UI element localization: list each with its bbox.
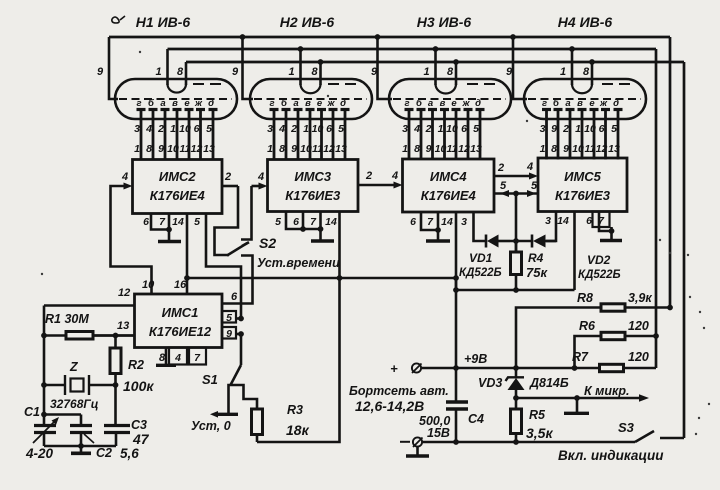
svg-text:С1: С1	[24, 405, 40, 419]
svg-text:9: 9	[551, 123, 557, 135]
tube Н1 grid dashed line	[119, 98, 232, 100]
scan specks (decorative)	[689, 296, 691, 298]
svg-text:6: 6	[599, 123, 605, 135]
svg-text:10: 10	[179, 123, 191, 135]
svg-text:10: 10	[142, 279, 155, 291]
tube Н3 anode dashes	[467, 83, 499, 85]
svg-text:R3: R3	[287, 403, 303, 417]
switch S3 contact	[660, 437, 684, 440]
svg-text:1: 1	[170, 123, 176, 135]
svg-text:4: 4	[145, 123, 152, 135]
IC ИМС1 pin 8 stub and bar	[165, 348, 168, 365]
svg-text:ИМС1: ИМС1	[162, 305, 199, 320]
svg-text:2: 2	[425, 123, 432, 135]
wire +9V supply bus to pins 14 16	[187, 278, 575, 290]
svg-text:а: а	[293, 98, 298, 109]
svg-text:VD3: VD3	[478, 376, 502, 390]
svg-text:6: 6	[586, 215, 592, 227]
tube Н2 ИВ-6 envelope	[250, 79, 372, 119]
svg-text:1: 1	[438, 123, 444, 135]
svg-text:1: 1	[134, 143, 140, 155]
svg-text:6: 6	[231, 291, 238, 303]
svg-text:13: 13	[203, 143, 215, 155]
tube Н2 anode dashes	[328, 83, 360, 85]
IC ИМС1 pin 9 boxed stub	[222, 327, 236, 339]
svg-text:R4: R4	[528, 251, 544, 265]
node filament bus1 junctions	[298, 46, 304, 52]
IC ИМС4 К176ИЕ4 box	[403, 159, 495, 212]
svg-text:Уст.времени: Уст.времени	[257, 256, 340, 270]
svg-text:1: 1	[303, 123, 309, 135]
IC ИМС2 К176ИЕ4 box	[133, 160, 223, 214]
switch S2 fixed contact from ИМС3 pin 4	[241, 186, 252, 240]
svg-text:ж: ж	[599, 98, 608, 109]
svg-text:3,5к: 3,5к	[526, 425, 553, 441]
svg-text:3,9к: 3,9к	[628, 291, 652, 305]
svg-text:4: 4	[121, 171, 128, 183]
svg-text:КД522Б: КД522Б	[578, 269, 621, 281]
svg-text:г: г	[404, 98, 409, 109]
wire ИМС3 pin14 riser continues to R3 bottom	[257, 278, 340, 442]
svg-text:32768Гц: 32768Гц	[50, 397, 99, 411]
wire R2 bottom to C3	[114, 385, 117, 426]
tube Н3 grid dashed line	[393, 98, 506, 100]
svg-text:10: 10	[435, 143, 447, 155]
svg-text:5,6: 5,6	[120, 446, 139, 461]
svg-text:13: 13	[470, 143, 482, 155]
svg-text:Н1 ИВ-6: Н1 ИВ-6	[136, 14, 191, 30]
svg-text:К176ИЕ12: К176ИЕ12	[149, 324, 212, 339]
svg-text:S2: S2	[259, 235, 276, 251]
tube Н4 filament pin 1 wire and label	[571, 49, 574, 85]
svg-text:9: 9	[506, 66, 513, 78]
svg-text:6: 6	[143, 216, 149, 228]
chassis ground under minus terminal	[416, 447, 419, 455]
tube Н4 grid dashed line	[528, 98, 641, 100]
svg-text:4-20: 4-20	[25, 446, 54, 461]
wire right riser bus pin9 to R8	[669, 37, 672, 308]
resistor R8 3,9к	[516, 308, 601, 369]
IC ИМС2 pin 2 output stub	[222, 185, 238, 188]
svg-text:Д814Б: Д814Б	[529, 376, 569, 390]
resistor R5 3,5к	[515, 398, 518, 409]
tube Н3 filament pin 1 wire and label	[434, 49, 437, 85]
svg-text:г: г	[542, 98, 547, 109]
svg-text:С2: С2	[96, 446, 112, 460]
tube Н1 anode dashes	[193, 83, 225, 85]
IC ИМС2 pin 5 wire to ИМС1 pin 5	[206, 214, 241, 319]
svg-text:14: 14	[325, 216, 337, 228]
svg-text:VD2: VD2	[587, 253, 611, 267]
svg-text:12: 12	[191, 143, 203, 155]
IC ИМС2 pin 6 wire	[151, 214, 169, 230]
svg-text:13: 13	[117, 320, 129, 332]
wire ИМС4 pin 2 to ИМС5 pin 4	[494, 175, 533, 178]
svg-text:К176ИЕ3: К176ИЕ3	[285, 188, 341, 203]
svg-text:10: 10	[572, 143, 584, 155]
IC ИМС1 pin 5 boxed stub	[222, 311, 236, 323]
svg-text:1: 1	[402, 143, 408, 155]
ground bar ИМС4	[426, 239, 450, 243]
svg-text:4: 4	[257, 171, 264, 183]
svg-text:К176ИЕ4: К176ИЕ4	[150, 188, 206, 203]
tube Н2 filament pin 1 wire and label	[299, 49, 302, 85]
svg-text:Н3 ИВ-6: Н3 ИВ-6	[417, 14, 472, 30]
svg-text:в: в	[577, 98, 583, 109]
svg-text:5: 5	[194, 216, 200, 228]
tube Н3 filament pin 8 wire and label	[455, 62, 458, 85]
svg-text:д: д	[340, 98, 346, 109]
wire bottom of oscillator	[43, 433, 46, 447]
svg-text:18к: 18к	[286, 422, 310, 438]
diode VD1 КД522Б	[485, 235, 488, 248]
svg-text:VD1: VD1	[469, 251, 493, 265]
svg-text:10: 10	[446, 123, 458, 135]
tube Н2 grid dashed line	[254, 98, 367, 100]
svg-text:5: 5	[226, 312, 232, 324]
svg-text:К176ИЕ4: К176ИЕ4	[421, 188, 477, 203]
IC ИМС2 pin 7 wire to ground	[168, 214, 171, 241]
chassis ground under C2	[71, 451, 91, 455]
wire preset node down to R4	[515, 194, 518, 253]
IC ИМС4 pin 3 wire to VD1	[474, 212, 486, 241]
svg-text:г: г	[136, 98, 141, 109]
wire grid riser tube H1	[109, 37, 118, 99]
svg-text:3: 3	[545, 215, 551, 227]
tube Н4 ИВ-6 envelope	[524, 79, 646, 119]
svg-text:8: 8	[312, 66, 319, 78]
svg-text:Н4 ИВ-6: Н4 ИВ-6	[558, 14, 613, 30]
svg-text:2: 2	[157, 123, 164, 135]
svg-text:е: е	[589, 98, 595, 109]
tube Н3 ИВ-6 envelope	[389, 79, 511, 119]
svg-text:2: 2	[497, 162, 504, 174]
wire minus bus	[422, 441, 635, 443]
svg-text:3: 3	[267, 123, 273, 135]
svg-text:100к: 100к	[123, 378, 154, 394]
svg-text:S1: S1	[202, 372, 218, 387]
resistor R2 100к	[114, 336, 117, 349]
svg-text:3: 3	[461, 216, 467, 228]
svg-text:4: 4	[413, 123, 420, 135]
svg-text:в: в	[305, 98, 311, 109]
svg-text:6: 6	[326, 123, 332, 135]
svg-text:12,6-14,2В: 12,6-14,2В	[355, 398, 424, 414]
svg-text:2: 2	[224, 171, 231, 183]
svg-text:R6: R6	[579, 319, 596, 333]
switch S1 blade	[231, 365, 242, 385]
svg-text:С4: С4	[468, 412, 484, 426]
svg-text:120: 120	[628, 350, 649, 364]
IC ИМС1 pin 4 boxed stub	[169, 348, 187, 365]
ground at К микр. node	[576, 398, 579, 412]
wire filament bus pin8	[186, 61, 684, 64]
svg-text:а: а	[565, 98, 570, 109]
svg-text:14: 14	[441, 216, 453, 228]
svg-text:ж: ж	[462, 98, 471, 109]
svg-text:ж: ж	[327, 98, 336, 109]
svg-text:9: 9	[426, 143, 432, 155]
svg-text:КД522Б: КД522Б	[459, 267, 502, 279]
IC ИМС5 К176ИЕ3 box	[538, 158, 627, 212]
svg-text:9: 9	[226, 328, 232, 340]
switch S2 lower throw to ИМС1 pin 6	[222, 256, 253, 304]
svg-text:11: 11	[447, 143, 458, 155]
tube Н3 filament loop	[436, 84, 457, 93]
switch S2 moving side from ИМС2 pin 2	[215, 186, 239, 255]
svg-text:+9В: +9В	[464, 352, 487, 366]
svg-text:8: 8	[414, 143, 420, 155]
svg-text:д: д	[208, 98, 214, 109]
IC ИМС3 pin 14 wire down to supply bus	[338, 212, 341, 279]
svg-text:R2: R2	[128, 358, 144, 372]
svg-text:16: 16	[174, 279, 187, 291]
tube Н2 filament pin 8 wire and label	[319, 62, 322, 85]
svg-text:12: 12	[118, 287, 130, 299]
svg-text:С3: С3	[131, 418, 147, 432]
IC ИМС1 К176ИЕ12 box	[135, 294, 223, 348]
svg-text:1: 1	[424, 66, 430, 78]
wire grid riser tube H4	[513, 37, 527, 99]
tube Н4 filament pin 8 wire and label	[591, 62, 594, 85]
switch S3 blade	[635, 431, 654, 442]
wire filament-grid bus pin9 (top bus)	[109, 36, 670, 39]
svg-text:3: 3	[540, 123, 546, 135]
svg-text:Уст, 0: Уст, 0	[191, 419, 231, 433]
terminal plus Бортсеть	[412, 363, 421, 372]
svg-text:К микр.: К микр.	[584, 384, 629, 398]
svg-text:2: 2	[290, 123, 297, 135]
IC ИМС1 pin 13 wire	[93, 334, 135, 337]
svg-text:9: 9	[158, 143, 164, 155]
IC ИМС4 pins 6 7 ground group	[421, 212, 438, 230]
ground bar ИМС2	[158, 240, 181, 244]
resistor R7 120	[600, 364, 624, 371]
switch S2 blade	[227, 243, 247, 255]
svg-text:4: 4	[174, 352, 181, 364]
ground bar ИМС5	[600, 239, 622, 243]
svg-text:6: 6	[293, 216, 299, 228]
svg-text:13: 13	[608, 143, 620, 155]
svg-text:8: 8	[583, 66, 590, 78]
svg-text:е: е	[184, 98, 190, 109]
svg-text:75к: 75к	[526, 265, 548, 280]
wire filament bus pin1	[168, 48, 657, 51]
svg-text:К176ИЕ3: К176ИЕ3	[555, 188, 611, 203]
IC ИМС3 pins 5 6 7 ground group	[286, 212, 321, 230]
svg-text:3: 3	[402, 123, 408, 135]
svg-text:Вкл. индикации: Вкл. индикации	[558, 448, 664, 463]
svg-text:12: 12	[458, 143, 470, 155]
svg-text:6: 6	[194, 123, 200, 135]
C2 leader line	[84, 434, 94, 443]
IC ИМС1 pin 10 wire to ИМС2 pin 4	[111, 186, 152, 294]
svg-text:ИМС3: ИМС3	[294, 169, 332, 184]
switch S1 contact to Уст.0 bar	[229, 385, 231, 413]
svg-text:5: 5	[531, 180, 538, 192]
svg-text:1: 1	[560, 66, 566, 78]
svg-text:5: 5	[275, 216, 281, 228]
wire grid riser tube H3	[378, 37, 393, 99]
IC ИМС1 pin 12 wire	[44, 304, 135, 307]
svg-text:R8: R8	[577, 291, 593, 305]
svg-text:8: 8	[279, 143, 285, 155]
svg-text:12: 12	[323, 143, 335, 155]
wire grid riser tube H2	[243, 37, 254, 99]
svg-text:4: 4	[391, 170, 398, 182]
svg-text:2: 2	[562, 123, 569, 135]
svg-text:Z: Z	[69, 360, 79, 374]
svg-text:10: 10	[167, 143, 179, 155]
wire ИМС4 pin 5 to ИМС5 pin 5 preset	[494, 192, 538, 195]
svg-text:9: 9	[371, 66, 378, 78]
svg-text:8: 8	[146, 143, 152, 155]
wire ИМС3 pin 2 to ИМС4 pin 4	[358, 184, 397, 187]
wire right riser bus pin8 to S3	[683, 62, 686, 438]
svg-text:5: 5	[338, 123, 344, 135]
IC ИМС5 pins 6 7 ground group	[599, 212, 612, 232]
tube Н1 filament pin 1 wire and label	[166, 49, 169, 85]
resistor R1 30М	[44, 334, 66, 337]
wire К микр. output with arrow	[516, 397, 640, 400]
svg-text:г: г	[269, 98, 274, 109]
svg-text:11: 11	[312, 143, 323, 155]
IC ИМС4 pin 14 wire down to supply rail	[455, 212, 458, 402]
svg-text:14: 14	[557, 215, 569, 227]
decorative mark before H1	[112, 16, 125, 23]
tube Н1 filament loop	[168, 84, 187, 93]
IC ИМС1 pin 7 boxed stub	[189, 348, 206, 365]
svg-text:а: а	[160, 98, 165, 109]
IC ИМС3 pin 4 input arrow from S2	[252, 185, 263, 188]
svg-text:10: 10	[584, 123, 596, 135]
svg-text:8: 8	[159, 352, 166, 364]
tube Н4 filament loop	[572, 84, 592, 93]
svg-text:1: 1	[267, 143, 273, 155]
svg-text:4: 4	[278, 123, 285, 135]
svg-text:9: 9	[291, 143, 297, 155]
tube Н1 ИВ-6 envelope	[115, 79, 237, 119]
svg-text:R1 30М: R1 30М	[45, 312, 89, 326]
svg-text:ж: ж	[194, 98, 203, 109]
svg-text:в: в	[172, 98, 178, 109]
svg-text:ИМС4: ИМС4	[430, 169, 468, 184]
tube Н4 anode dashes	[602, 83, 634, 85]
zener diode VD3 Д814Б	[515, 368, 518, 377]
svg-text:6: 6	[461, 123, 467, 135]
svg-text:4: 4	[526, 161, 533, 173]
ground bar ИМС3	[311, 239, 334, 243]
IC ИМС5 pin 3 wire to VD2	[546, 212, 556, 242]
svg-text:а: а	[428, 98, 433, 109]
resistor R4 75к	[515, 241, 518, 252]
svg-text:ИМС2: ИМС2	[159, 169, 197, 184]
svg-text:д: д	[613, 98, 619, 109]
svg-text:3: 3	[134, 123, 140, 135]
tube Н2 filament loop	[301, 84, 321, 93]
resistor R6 120	[575, 336, 602, 368]
svg-text:8: 8	[447, 66, 454, 78]
IC ИМС2 pin 14 wire down to supply bus	[186, 214, 189, 279]
resistor R3 18к	[231, 385, 258, 409]
svg-text:9: 9	[563, 143, 569, 155]
svg-text:9: 9	[232, 66, 239, 78]
svg-text:120: 120	[628, 319, 649, 333]
svg-text:9: 9	[97, 66, 104, 78]
svg-text:11: 11	[180, 143, 191, 155]
svg-text:5: 5	[611, 123, 617, 135]
capacitor C2 5,6	[80, 415, 83, 426]
svg-text:2: 2	[365, 170, 372, 182]
svg-text:11: 11	[585, 143, 596, 155]
svg-text:5: 5	[206, 123, 212, 135]
svg-text:S3: S3	[618, 420, 635, 435]
IC ИМС5 pin 14 wire to supply bus	[573, 212, 576, 291]
svg-text:12: 12	[596, 143, 608, 155]
node filament bus8 junctions	[318, 59, 324, 65]
svg-text:R5: R5	[529, 408, 546, 422]
terminal minus Бортсеть	[413, 437, 422, 446]
svg-text:1: 1	[289, 66, 295, 78]
svg-text:5: 5	[500, 180, 507, 192]
svg-text:е: е	[451, 98, 457, 109]
svg-text:5: 5	[473, 123, 479, 135]
svg-text:д: д	[475, 98, 481, 109]
capacitor C3 47	[104, 424, 130, 427]
diode VD2 КД522Б	[531, 235, 534, 248]
svg-text:Н2 ИВ-6: Н2 ИВ-6	[280, 14, 335, 30]
svg-text:R7: R7	[572, 350, 589, 364]
svg-text:15В: 15В	[427, 426, 450, 440]
wire +9V rail	[421, 367, 600, 370]
svg-text:10: 10	[300, 143, 312, 155]
capacitor C1 trimmer 4-20	[34, 424, 56, 427]
svg-text:1: 1	[156, 66, 162, 78]
IC ИМС1 pin 16 wire	[186, 278, 189, 294]
tube Н1 filament pin 8 wire and label	[185, 62, 188, 85]
IC ИМС5 pin 7 boxed stub	[593, 212, 610, 228]
wire right riser bus pin1 to R6 R7	[655, 49, 658, 368]
capacitor C4 500,0 15В	[446, 400, 468, 403]
wire diode junction	[510, 240, 532, 243]
svg-text:8: 8	[551, 143, 557, 155]
wire ИМС1 pins 5 9 down to S1	[240, 334, 243, 365]
svg-text:е: е	[317, 98, 323, 109]
svg-text:+: +	[390, 361, 398, 376]
svg-text:ИМС5: ИМС5	[564, 169, 602, 184]
wire oscillator left rail	[43, 306, 46, 426]
svg-text:6: 6	[410, 216, 416, 228]
svg-text:8: 8	[177, 66, 184, 78]
IC ИМС3 К176ИЕ3 box	[268, 160, 359, 212]
svg-text:в: в	[440, 98, 446, 109]
svg-text:1: 1	[575, 123, 581, 135]
svg-text:Бортсеть авт.: Бортсеть авт.	[349, 384, 449, 398]
svg-text:14: 14	[172, 216, 184, 228]
crystal Z 32768Гц	[44, 384, 65, 387]
svg-text:13: 13	[335, 143, 347, 155]
svg-text:47: 47	[132, 431, 150, 447]
svg-text:10: 10	[312, 123, 324, 135]
svg-text:1: 1	[540, 143, 546, 155]
